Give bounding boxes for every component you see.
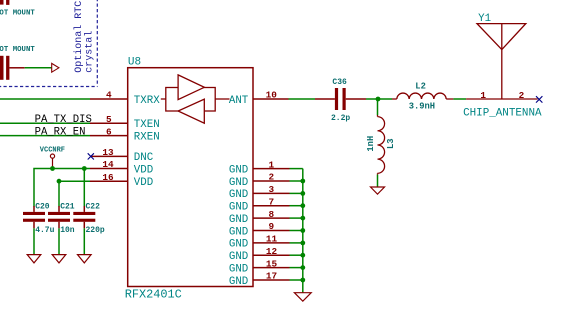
internal stub right <box>215 98 229 100</box>
pin 13 DNC <box>90 155 128 157</box>
svg-text:U8: U8 <box>128 56 141 68</box>
svg-text:OT MOUNT: OT MOUNT <box>0 46 35 54</box>
pin 3 GND <box>229 184 303 201</box>
svg-text:GND: GND <box>229 214 248 226</box>
svg-text:10n: 10n <box>60 226 75 235</box>
inductor L3 <box>378 115 385 175</box>
pin 4 TXRX <box>90 98 128 100</box>
svg-text:9: 9 <box>268 221 274 232</box>
pin stub from cap2 <box>9 67 24 69</box>
pin 7 GND <box>229 196 303 213</box>
wire C22 to gnd <box>83 228 85 254</box>
pin 11 GND <box>229 234 303 251</box>
wire C21 to gnd <box>58 228 60 254</box>
junction GND bus pin 3 <box>300 191 305 196</box>
svg-text:OT MOUNT: OT MOUNT <box>0 9 35 17</box>
svg-text:PA_TX_DIS: PA_TX_DIS <box>35 114 92 126</box>
capacitor (RTC load cap, cut off at top) <box>0 0 9 5</box>
pin 8 GND <box>229 209 303 226</box>
capacitor C20 <box>23 212 45 222</box>
hierarchical label arrow <box>52 63 59 72</box>
junction C21 branch <box>57 179 62 184</box>
svg-text:L2: L2 <box>415 82 426 92</box>
svg-text:VCCNRF: VCCNRF <box>40 146 65 154</box>
svg-text:C21: C21 <box>60 202 75 211</box>
svg-text:2.2p: 2.2p <box>331 114 350 123</box>
wire PA_RX_EN <box>0 135 90 137</box>
pin 16 VDD <box>90 180 128 182</box>
inductor L2 <box>392 93 453 99</box>
svg-text:15: 15 <box>266 258 278 269</box>
svg-text:CHIP_ANTENNA: CHIP_ANTENNA <box>463 107 542 119</box>
svg-text:VDD: VDD <box>134 177 153 189</box>
svg-text:12: 12 <box>266 246 278 257</box>
svg-text:GND: GND <box>229 189 248 201</box>
wire VDD rail 1 <box>34 169 90 207</box>
svg-text:2: 2 <box>519 90 525 101</box>
wire C22 branch <box>83 169 85 207</box>
svg-text:11: 11 <box>266 234 278 245</box>
junction GND bus pin 2 <box>300 179 305 184</box>
svg-text:7: 7 <box>268 196 274 207</box>
wire L2 to antenna <box>453 98 466 100</box>
svg-text:16: 16 <box>102 172 114 183</box>
svg-text:GND: GND <box>229 263 248 275</box>
svg-text:VDD: VDD <box>134 164 153 176</box>
wire C36 to junction <box>366 98 392 100</box>
svg-text:GND: GND <box>229 251 248 263</box>
junction GND bus pin 9 <box>300 228 305 233</box>
svg-text:C22: C22 <box>86 202 101 211</box>
svg-text:GND: GND <box>229 276 248 288</box>
pin 10 ANT <box>253 98 289 100</box>
svg-text:1: 1 <box>268 159 274 170</box>
svg-text:GND: GND <box>229 202 248 214</box>
GND bus vertical wire <box>302 169 304 293</box>
svg-text:GND: GND <box>229 239 248 251</box>
svg-text:ANT: ANT <box>229 95 249 107</box>
svg-text:C36: C36 <box>332 78 347 87</box>
svg-text:GND: GND <box>229 226 248 238</box>
svg-text:17: 17 <box>266 271 277 282</box>
svg-text:3.9nH: 3.9nH <box>409 101 435 111</box>
pin 15 GND <box>229 258 303 275</box>
svg-text:14: 14 <box>102 159 114 170</box>
capacitor C22 <box>73 212 95 222</box>
svg-text:10: 10 <box>266 90 278 101</box>
ground C20 <box>27 255 41 263</box>
junction GND bus pin 15 <box>300 265 305 270</box>
pin 12 GND <box>229 246 303 263</box>
ground C22 <box>78 255 92 263</box>
junction GND bus pin 8 <box>300 216 305 221</box>
wire L3 to gnd <box>377 175 379 187</box>
wire to hierarchical arrow <box>25 67 52 69</box>
no-connect X antenna pin 2 <box>536 96 542 102</box>
pin 14 VDD <box>90 168 128 170</box>
svg-text:5: 5 <box>106 114 112 125</box>
ground C21 <box>52 255 66 263</box>
svg-text:L3: L3 <box>386 138 396 149</box>
pin 6 RXEN <box>90 135 128 137</box>
ground U8 bus <box>294 293 311 302</box>
wire PA_TX_DIS <box>0 122 90 124</box>
junction C22 branch <box>82 166 87 171</box>
power symbol VCCNRF <box>50 154 54 169</box>
junction GND bus pin 12 <box>300 253 305 258</box>
junction GND bus pin 11 <box>300 241 305 246</box>
svg-text:4.7u: 4.7u <box>35 226 54 235</box>
amp triangle RX <box>178 99 204 123</box>
pin 17 GND <box>229 271 303 288</box>
pin 2 GND <box>229 172 303 189</box>
svg-text:Optional RTC: Optional RTC <box>73 1 85 73</box>
amp triangle TX <box>178 75 204 100</box>
svg-text:RFX2401C: RFX2401C <box>125 287 182 301</box>
wire pin10 to C36 <box>289 98 316 100</box>
internal stub left <box>161 98 166 100</box>
capacitor C21 <box>48 212 70 222</box>
wire VDD rail 2 <box>59 181 90 206</box>
svg-text:Y1: Y1 <box>478 13 491 25</box>
svg-text:DNC: DNC <box>134 152 154 164</box>
junction VCC stem <box>50 166 55 171</box>
wire junction to L3 <box>377 99 379 115</box>
IC U8 RFX2401C body <box>128 68 253 287</box>
capacitor (RTC load cap 2) <box>0 56 9 80</box>
capacitor C36 <box>335 88 346 110</box>
svg-text:220p: 220p <box>86 226 105 235</box>
svg-text:PA_RX_EN: PA_RX_EN <box>35 126 86 138</box>
svg-text:8: 8 <box>268 209 274 220</box>
junction GND bus pin 17 <box>300 278 305 283</box>
wire C20 to gnd <box>33 228 35 254</box>
svg-text:TXRX: TXRX <box>134 95 160 107</box>
junction RF node <box>376 97 381 102</box>
svg-text:2: 2 <box>268 172 274 183</box>
pin 5 TXEN <box>90 122 128 124</box>
svg-text:C20: C20 <box>35 202 50 211</box>
dashed annotation box (Optional RTC crystal) <box>0 0 97 87</box>
internal amp frame <box>166 88 215 112</box>
svg-text:RXEN: RXEN <box>134 131 160 143</box>
svg-text:13: 13 <box>102 147 114 158</box>
svg-text:TXEN: TXEN <box>134 119 160 131</box>
svg-text:4: 4 <box>106 90 112 101</box>
pin 9 GND <box>229 221 303 238</box>
svg-text:1: 1 <box>480 90 486 101</box>
no-connect X pin 13 <box>88 153 94 159</box>
ground L3 <box>371 187 385 194</box>
wire pin4 net <box>0 98 90 100</box>
svg-text:6: 6 <box>106 126 112 137</box>
svg-text:1nH: 1nH <box>366 136 376 152</box>
junction GND bus pin 7 <box>300 203 305 208</box>
pin 1 GND <box>229 159 303 176</box>
svg-text:3: 3 <box>268 184 274 195</box>
svg-text:crystal: crystal <box>83 31 95 73</box>
svg-text:GND: GND <box>229 177 248 189</box>
svg-text:GND: GND <box>229 164 248 176</box>
antenna Y1 <box>466 24 538 99</box>
